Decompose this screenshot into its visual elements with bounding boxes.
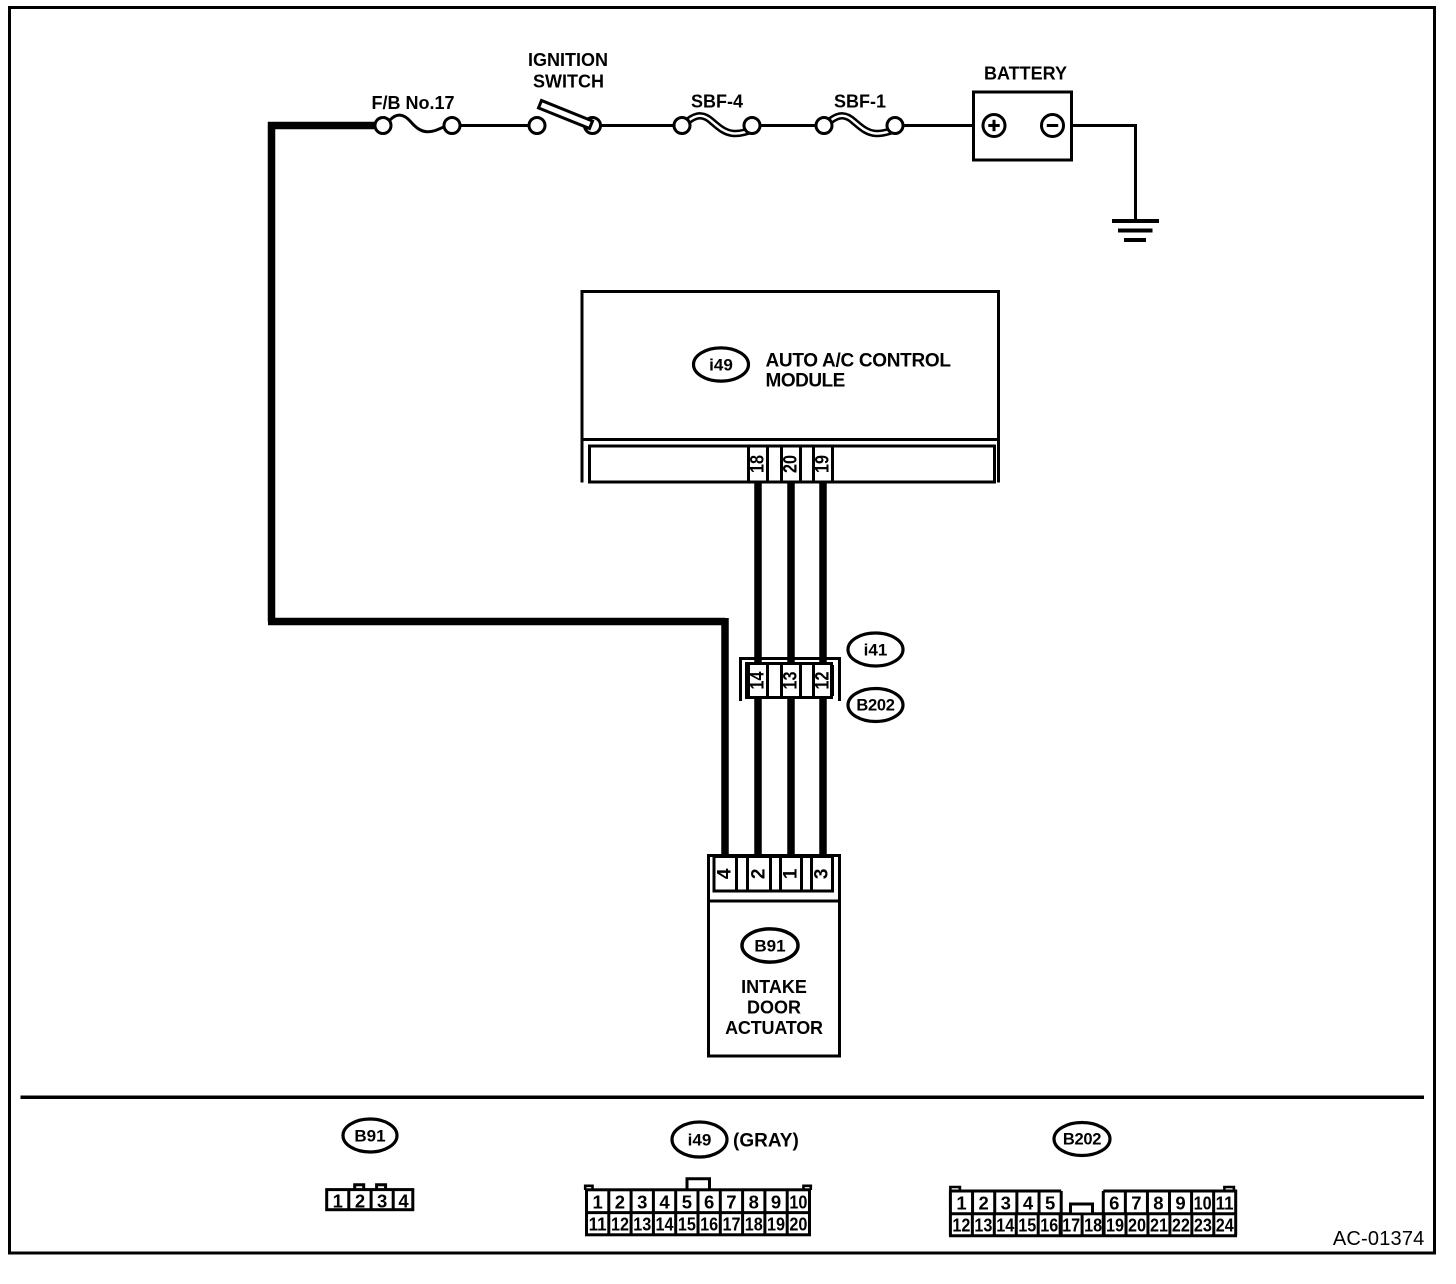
svg-text:11: 11: [1216, 1192, 1234, 1213]
svg-text:i41: i41: [864, 641, 888, 660]
svg-text:21: 21: [1150, 1215, 1168, 1236]
svg-text:6: 6: [704, 1191, 714, 1212]
wire: pin 18 to pin 14 to actuator pin 2: [754, 481, 762, 860]
connector face B91 housing: [327, 1185, 413, 1210]
svg-text:8: 8: [1153, 1192, 1163, 1213]
svg-text:2: 2: [355, 1190, 365, 1211]
svg-text:B91: B91: [754, 937, 785, 956]
svg-text:7: 7: [726, 1191, 736, 1212]
wire: battery negative to ground: [1064, 124, 1136, 127]
pin 1: [781, 858, 802, 890]
svg-text:23: 23: [1194, 1215, 1212, 1236]
svg-text:ACTUATOR: ACTUATOR: [725, 1018, 823, 1038]
fuse F/B No.17: [375, 115, 460, 133]
svg-text:12: 12: [952, 1215, 970, 1236]
svg-text:18: 18: [748, 455, 769, 473]
svg-text:13: 13: [781, 672, 802, 690]
svg-text:13: 13: [974, 1215, 992, 1236]
i49 face pin numbers 11-20: [589, 1214, 808, 1235]
connector oval i41: [848, 633, 903, 666]
svg-text:15: 15: [678, 1214, 696, 1235]
svg-text:16: 16: [700, 1214, 718, 1235]
svg-text:1: 1: [593, 1191, 603, 1212]
fusible link SBF-1: [816, 116, 903, 134]
connector face B202 housing: [949, 1187, 1237, 1236]
svg-text:18: 18: [1084, 1215, 1102, 1236]
svg-text:4: 4: [398, 1190, 409, 1211]
svg-text:10: 10: [1194, 1192, 1212, 1213]
pin 14: [748, 665, 769, 696]
svg-text:19: 19: [767, 1214, 785, 1235]
fusible link SBF-4: [674, 116, 760, 134]
connector oval B202: [848, 689, 903, 722]
svg-text:SBF-4: SBF-4: [691, 92, 743, 112]
svg-text:4: 4: [1023, 1192, 1034, 1213]
svg-text:17: 17: [1062, 1215, 1080, 1236]
svg-text:F/B No.17: F/B No.17: [371, 93, 454, 113]
wire: ignition switch to SBF-4: [592, 124, 682, 127]
svg-text:20: 20: [781, 455, 802, 473]
svg-text:16: 16: [1040, 1215, 1058, 1236]
battery: [974, 92, 1072, 160]
svg-text:7: 7: [1131, 1192, 1141, 1213]
wire: battery feed bus vertical left: [268, 122, 276, 622]
pin 20: [781, 448, 802, 481]
wire: SBF-1 to battery: [895, 124, 983, 127]
svg-text:2: 2: [979, 1192, 989, 1213]
module box AUTO A/C CONTROL MODULE (i49): [582, 292, 999, 440]
pin 18: [748, 448, 769, 481]
svg-text:12: 12: [813, 672, 834, 690]
svg-text:SWITCH: SWITCH: [533, 72, 604, 92]
svg-text:14: 14: [748, 671, 769, 689]
actuator pin strip: [714, 857, 833, 892]
svg-text:10: 10: [789, 1191, 807, 1212]
svg-text:12: 12: [611, 1214, 629, 1235]
wire: SBF-4 to SBF-1: [752, 124, 824, 127]
svg-text:5: 5: [1045, 1192, 1055, 1213]
svg-text:6: 6: [1109, 1192, 1119, 1213]
svg-text:B91: B91: [354, 1127, 385, 1146]
svg-text:15: 15: [1018, 1215, 1036, 1236]
connector i41/B202 bracket: [739, 657, 841, 701]
connector i41/B202 body: [747, 664, 832, 698]
wire: pin 20 to pin 13 to actuator pin 1: [787, 481, 795, 860]
svg-text:3: 3: [1001, 1192, 1011, 1213]
svg-text:1: 1: [781, 868, 802, 879]
actuator strip divider: [709, 900, 840, 903]
ignition switch: [529, 100, 601, 133]
section divider line: [21, 1095, 1425, 1099]
B202 face pin numbers 12-24: [952, 1215, 1234, 1236]
module pin strip: [590, 446, 995, 482]
svg-text:2: 2: [749, 869, 770, 880]
pin 2: [748, 858, 771, 890]
svg-text:9: 9: [1175, 1192, 1185, 1213]
svg-text:20: 20: [789, 1214, 807, 1235]
battery - terminal: [1042, 115, 1064, 137]
svg-text:SBF-1: SBF-1: [834, 92, 886, 112]
wire: bus to fuse F/B No.17: [268, 122, 376, 130]
svg-text:BATTERY: BATTERY: [984, 64, 1067, 84]
svg-text:5: 5: [682, 1191, 692, 1212]
pin 4: [715, 858, 737, 890]
B91 face pin numbers 1-4: [333, 1190, 410, 1211]
svg-text:17: 17: [722, 1214, 740, 1235]
svg-text:3: 3: [812, 869, 833, 880]
svg-text:8: 8: [749, 1191, 759, 1212]
svg-text:MODULE: MODULE: [766, 370, 845, 391]
svg-text:4: 4: [715, 868, 736, 879]
svg-text:DOOR: DOOR: [747, 998, 801, 1018]
svg-text:9: 9: [771, 1191, 781, 1212]
svg-text:AC-01374: AC-01374: [1333, 1228, 1425, 1250]
svg-text:13: 13: [633, 1214, 651, 1235]
svg-text:i49: i49: [709, 356, 733, 375]
i49 face pin numbers 1-10: [593, 1191, 808, 1212]
connector face i49 housing: [585, 1179, 811, 1235]
pin 19: [813, 448, 834, 481]
svg-text:B202: B202: [1063, 1131, 1101, 1149]
ground: [1112, 221, 1159, 240]
B202 face pin numbers 1-5: [956, 1192, 1055, 1213]
wire: pin 19 to pin 12 to actuator pin 3: [819, 481, 827, 860]
svg-text:4: 4: [659, 1191, 670, 1212]
svg-text:20: 20: [1128, 1215, 1146, 1236]
svg-text:22: 22: [1172, 1215, 1190, 1236]
svg-text:i49: i49: [688, 1131, 712, 1150]
svg-text:1: 1: [956, 1192, 966, 1213]
svg-text:AUTO A/C CONTROL: AUTO A/C CONTROL: [766, 351, 952, 372]
svg-text:14: 14: [996, 1215, 1015, 1236]
pin 12: [813, 665, 834, 696]
B202 face pin numbers 6-11: [1109, 1192, 1233, 1213]
actuator B91 INTAKE DOOR ACTUATOR box: [709, 856, 840, 1057]
svg-text:18: 18: [745, 1214, 763, 1235]
svg-text:11: 11: [589, 1214, 607, 1235]
svg-text:(GRAY): (GRAY): [733, 1131, 799, 1152]
svg-text:IGNITION: IGNITION: [528, 50, 608, 70]
svg-text:19: 19: [1106, 1215, 1124, 1236]
svg-text:B202: B202: [856, 697, 894, 715]
svg-text:1: 1: [333, 1190, 343, 1211]
connector oval B91 (face view): [343, 1119, 397, 1152]
svg-text:3: 3: [637, 1191, 647, 1212]
battery + terminal: [983, 115, 1005, 137]
module connector bracket legs: [581, 440, 584, 483]
connector oval i49 (face view): [672, 1122, 727, 1157]
wire: battery feed bus down to actuator pin 4: [721, 618, 729, 860]
wire: fuse to ignition switch: [452, 124, 537, 127]
wire: battery feed bus horizontal: [268, 618, 725, 626]
connector oval B202 (face view): [1054, 1123, 1110, 1156]
svg-text:INTAKE: INTAKE: [741, 977, 807, 997]
connector oval B91: [742, 929, 798, 962]
pin 13: [781, 665, 802, 696]
svg-text:19: 19: [813, 455, 834, 473]
pin 3: [812, 858, 833, 890]
svg-text:3: 3: [377, 1190, 387, 1211]
svg-text:2: 2: [615, 1191, 625, 1212]
svg-text:24: 24: [1216, 1215, 1235, 1236]
svg-text:14: 14: [656, 1214, 675, 1235]
connector oval i49: [694, 348, 749, 381]
